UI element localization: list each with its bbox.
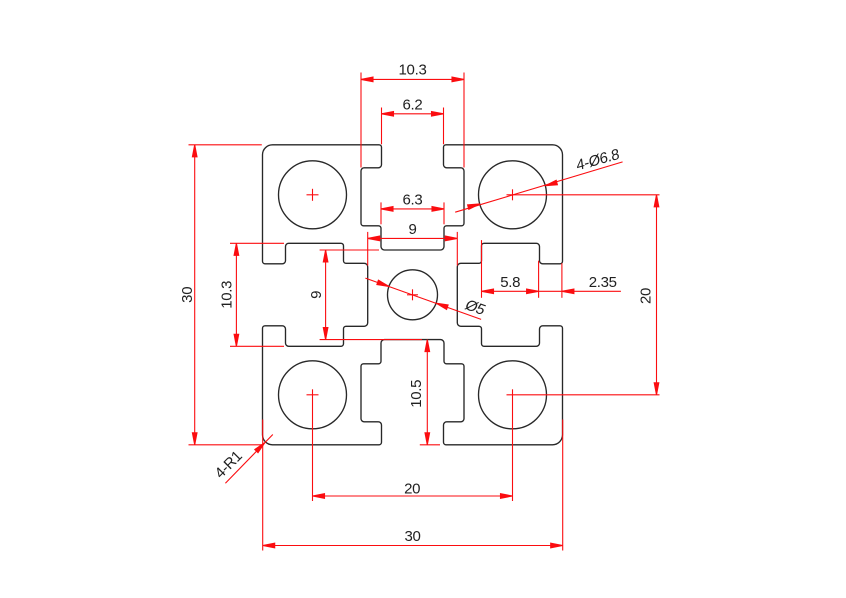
svg-text:5.8: 5.8 [500, 274, 520, 291]
dimension 9 horizontal [367, 232, 369, 266]
profile outline 30x30 extrusion [263, 145, 563, 445]
leader 4-D6.8 [455, 162, 622, 212]
hole top-right 6.8 [479, 161, 547, 229]
svg-text:6.3: 6.3 [403, 192, 423, 209]
svg-text:20: 20 [404, 481, 420, 498]
dimension 5.8 [481, 240, 483, 298]
svg-text:20: 20 [637, 288, 654, 304]
hole center 5 [388, 270, 438, 320]
svg-text:6.2: 6.2 [403, 96, 423, 113]
hole bottom-right 6.8 [479, 361, 547, 429]
dimension 10.5 [426, 340, 428, 445]
dimension 2.35 [561, 263, 563, 298]
center mark hole center [407, 294, 418, 296]
dimension 6.3 [380, 202, 382, 224]
hole top-left 6.8 [279, 161, 347, 229]
center mark hole bottom-left [307, 394, 319, 396]
dimension 6.2 top [381, 108, 383, 145]
dimension 20 bottom [313, 495, 513, 497]
center mark hole top-left [307, 194, 319, 196]
svg-text:10.3: 10.3 [218, 281, 235, 309]
center mark hole top-right [507, 194, 660, 196]
svg-text:9: 9 [408, 221, 416, 238]
svg-text:2.35: 2.35 [589, 274, 617, 291]
svg-text:30: 30 [179, 287, 196, 303]
svg-text:9: 9 [308, 291, 325, 299]
svg-text:10.5: 10.5 [408, 380, 425, 408]
dimension 20 right [656, 195, 658, 395]
dimension 9 vertical [320, 249, 379, 251]
leader D5 [365, 278, 481, 319]
hole bottom-left 6.8 [279, 361, 347, 429]
dimension 10.3 top [360, 73, 362, 168]
dimension 30 left [189, 144, 262, 146]
svg-text:10.3: 10.3 [399, 62, 427, 79]
dimension 30 bottom [262, 420, 264, 551]
dimension 10.3 left [230, 242, 284, 244]
leader 4-R1 [225, 435, 272, 484]
center mark hole bottom-right [507, 394, 660, 396]
svg-text:30: 30 [404, 528, 420, 545]
